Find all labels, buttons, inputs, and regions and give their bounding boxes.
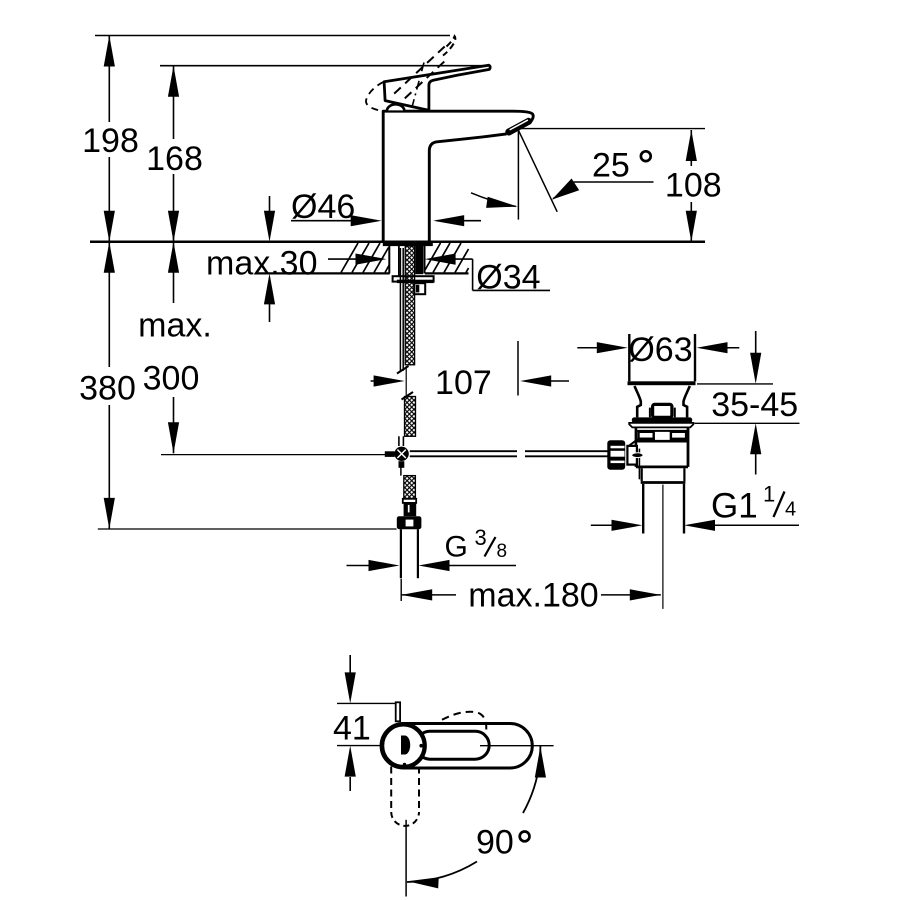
extension line at aerator level	[521, 128, 706, 130]
dimension 380 vertical line	[108, 242, 110, 367]
spout underside	[429, 134, 506, 242]
svg-text:380: 380	[79, 370, 136, 408]
body top line	[636, 430, 688, 432]
svg-text:90: 90	[476, 824, 514, 862]
counter hatching left	[341, 243, 390, 273]
counter hatching right	[425, 243, 469, 273]
lever raised base outline (dashed)	[366, 82, 384, 111]
lever handle (solid position)	[384, 65, 490, 110]
supply hose braid (lower)	[404, 476, 416, 499]
knurled pivot nut	[607, 440, 625, 469]
svg-text:G: G	[445, 531, 468, 564]
svg-text:168: 168	[146, 140, 203, 178]
Ø63 dimension	[577, 347, 613, 349]
rod knob posts	[649, 408, 651, 418]
drain body walls	[635, 427, 638, 467]
break tick lower	[402, 392, 414, 400]
plan handle down position (dashed)	[390, 767, 392, 813]
svg-text:1: 1	[763, 482, 775, 507]
horizontal pop-up rod	[410, 450, 517, 452]
plan lever tip tick	[396, 702, 400, 721]
body bottom line	[636, 465, 688, 468]
41 dimension arrows	[349, 655, 351, 673]
drain bell right	[684, 386, 690, 417]
lever raised (dashed) edge A	[394, 43, 449, 94]
90 degree arc	[523, 746, 540, 813]
vertical reference through aerator	[517, 130, 519, 220]
rod guide tab	[414, 283, 425, 294]
pivot connector	[627, 446, 637, 465]
svg-text:35-45: 35-45	[711, 386, 798, 424]
mounting washer	[393, 276, 434, 281]
svg-text:25: 25	[592, 147, 630, 185]
seal washer (black)	[632, 417, 692, 423]
drain bell left	[635, 386, 641, 417]
break centerline	[405, 366, 407, 397]
thread step	[641, 468, 643, 481]
svg-text:G1: G1	[711, 487, 758, 526]
hose below ball	[400, 464, 402, 476]
counter top line	[90, 241, 705, 244]
cartridge dome under lever	[387, 104, 405, 110]
hose nut	[397, 516, 422, 529]
plan handle swivel arc (dashed)	[442, 712, 486, 730]
tailpipe	[642, 484, 644, 534]
mounting nut black bar	[397, 280, 434, 283]
svg-text:Ø63: Ø63	[628, 331, 692, 369]
dimension 198 vertical line	[108, 36, 110, 123]
hose ferrule (black)	[404, 503, 417, 516]
svg-text:41: 41	[333, 710, 371, 748]
rod above ball joint	[398, 436, 400, 446]
clevis pin	[638, 449, 640, 480]
supply hose braid (upper)	[405, 246, 414, 365]
base gasket	[383, 243, 433, 246]
rod knob	[653, 404, 672, 417]
plan handle capsule	[416, 731, 489, 759]
water jet line	[518, 130, 557, 212]
svg-text:3: 3	[475, 525, 487, 550]
svg-text:198: 198	[82, 122, 139, 160]
svg-text:Ø34: Ø34	[476, 258, 540, 296]
380 lower extension line	[98, 528, 397, 530]
dimension max.300 vertical line	[173, 242, 175, 303]
swivel arc with arrow	[471, 193, 516, 207]
supply hose braid (middle)	[405, 397, 416, 437]
flange plate under washer	[629, 423, 693, 428]
lever pivot dash-dot line	[412, 63, 425, 110]
svg-text:4: 4	[785, 499, 796, 521]
top reference line (198 level, dashed-handle tip)	[95, 35, 450, 37]
flange walls	[628, 334, 630, 381]
plan spout capsule	[381, 724, 532, 769]
shank walls	[388, 246, 390, 273]
aerator (mousseur)	[509, 121, 529, 132]
overflow slots	[639, 432, 654, 439]
300 lower extension line (pop-up rod level)	[161, 454, 386, 456]
lever raised (dashed) edge B	[405, 60, 447, 99]
drain centerline	[662, 485, 664, 609]
plan horizontal centerline	[480, 745, 554, 747]
counter bottom line	[256, 272, 390, 274]
svg-text:max.30: max.30	[206, 245, 318, 283]
plan D mark	[401, 736, 410, 755]
svg-text:107: 107	[435, 364, 492, 402]
pop-up rod (vertical)	[399, 248, 401, 371]
ball joint	[385, 451, 395, 457]
svg-text:108: 108	[665, 167, 722, 205]
dim 108 vertical	[690, 130, 692, 166]
flange bottom plate	[628, 381, 696, 385]
svg-text:max.180: max.180	[468, 577, 598, 615]
plan dots	[419, 744, 423, 748]
svg-text:max.: max.	[138, 307, 212, 345]
25 deg leader	[553, 184, 575, 199]
41 extension lines	[337, 702, 395, 704]
G3/8 threaded end	[400, 529, 402, 578]
spout/body outline	[383, 111, 533, 242]
hose collar	[403, 499, 416, 503]
break tick upper	[397, 366, 409, 374]
reference line (168 level, solid-handle tip)	[160, 65, 487, 67]
shank thread bar	[415, 246, 423, 275]
max.180 left extension	[400, 579, 402, 601]
pivot housing top line	[638, 438, 655, 440]
plan body circle	[382, 724, 425, 767]
dimension 168 vertical line	[173, 66, 175, 139]
plan vertical centerline	[405, 820, 407, 897]
svg-text:300: 300	[143, 360, 200, 398]
svg-text:8: 8	[497, 541, 508, 562]
lever raised dashed beak tip	[443, 36, 455, 55]
